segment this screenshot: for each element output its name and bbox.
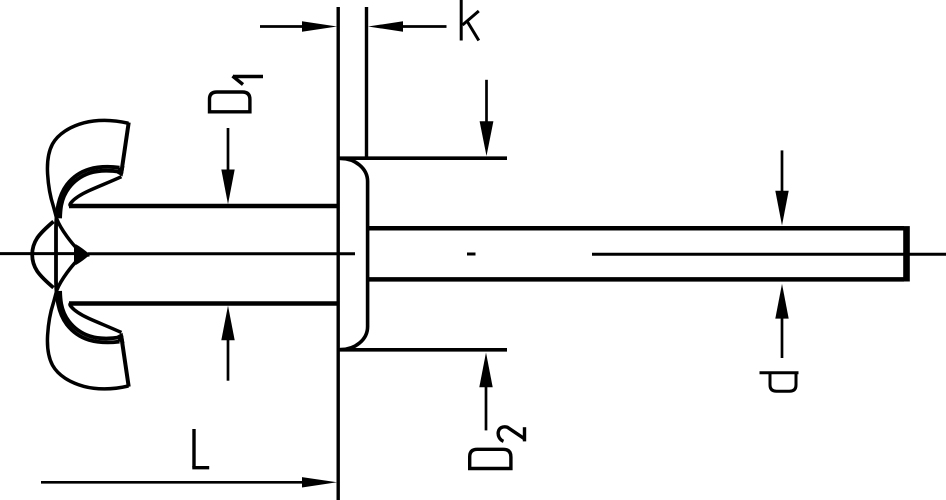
dimension k right arrowhead [368,21,403,31]
rivet body bottom line [69,301,338,306]
dimension k right line [402,25,447,28]
beak fill at mandrel tip [76,244,90,265]
sheet plane line (left vertical through head face) [337,7,340,500]
label D2 (rotated) [470,427,525,469]
bottom petal curl inner arc A2 [60,291,120,339]
centerline middle segment [88,252,355,255]
top petal curl inner arc A2 [60,171,120,219]
bottom petal cut edge [121,336,129,387]
dimension L line [41,481,303,484]
centerline left segment [0,252,74,255]
centerline right segment [592,253,946,256]
top petal outer arc sweeping into ball right curve to beak [47,120,128,254]
dimension d lower arrow (up) [775,284,788,319]
rivet body top line [69,204,338,209]
flange head bottom edge + D2 extension [337,348,507,352]
bottom petal cut edge junction fill [117,333,125,344]
ball left arc upper half [32,222,53,255]
top petal cut edge [121,123,129,174]
dimension d upper arrow (down) [781,150,784,192]
centerline short dash [467,253,476,256]
mandrel top line [368,226,904,231]
mandrel bottom line [368,277,904,282]
dimension D1 upper arrow (down) [227,128,230,172]
mandrel head cone (filled triangle on axis) [74,246,90,262]
dimension L arrowhead [302,477,337,487]
label L [192,429,209,468]
top petal cut edge junction fill [117,166,125,177]
label d (rotated) [760,373,799,391]
dimension D2 arrow (up) [479,353,492,388]
dimension k left line [260,25,303,28]
top petal curl inner arc A1 descending through ball [56,167,120,255]
flange head top edge + D2 extension [337,156,507,160]
label D1 (rotated) [210,76,264,112]
ball left arc lower half [32,255,53,288]
dimension k left arrowhead [302,21,337,31]
bottom petal lower arc into body bottom line [70,303,121,332]
bottom petal outer arc sweeping into ball right curve to beak [47,255,128,389]
dimension D1 lower arrow (up) [227,338,230,381]
top petal lower arc into body top line [70,177,121,207]
label k [461,0,479,41]
mandrel end bar [903,226,910,281]
head face extension line (right vertical) [365,7,368,158]
bottom petal curl inner arc A1 ascending through ball [56,255,120,343]
flange head domed right profile [340,158,368,349]
dimension D2 upper arrow (down) [485,80,488,122]
